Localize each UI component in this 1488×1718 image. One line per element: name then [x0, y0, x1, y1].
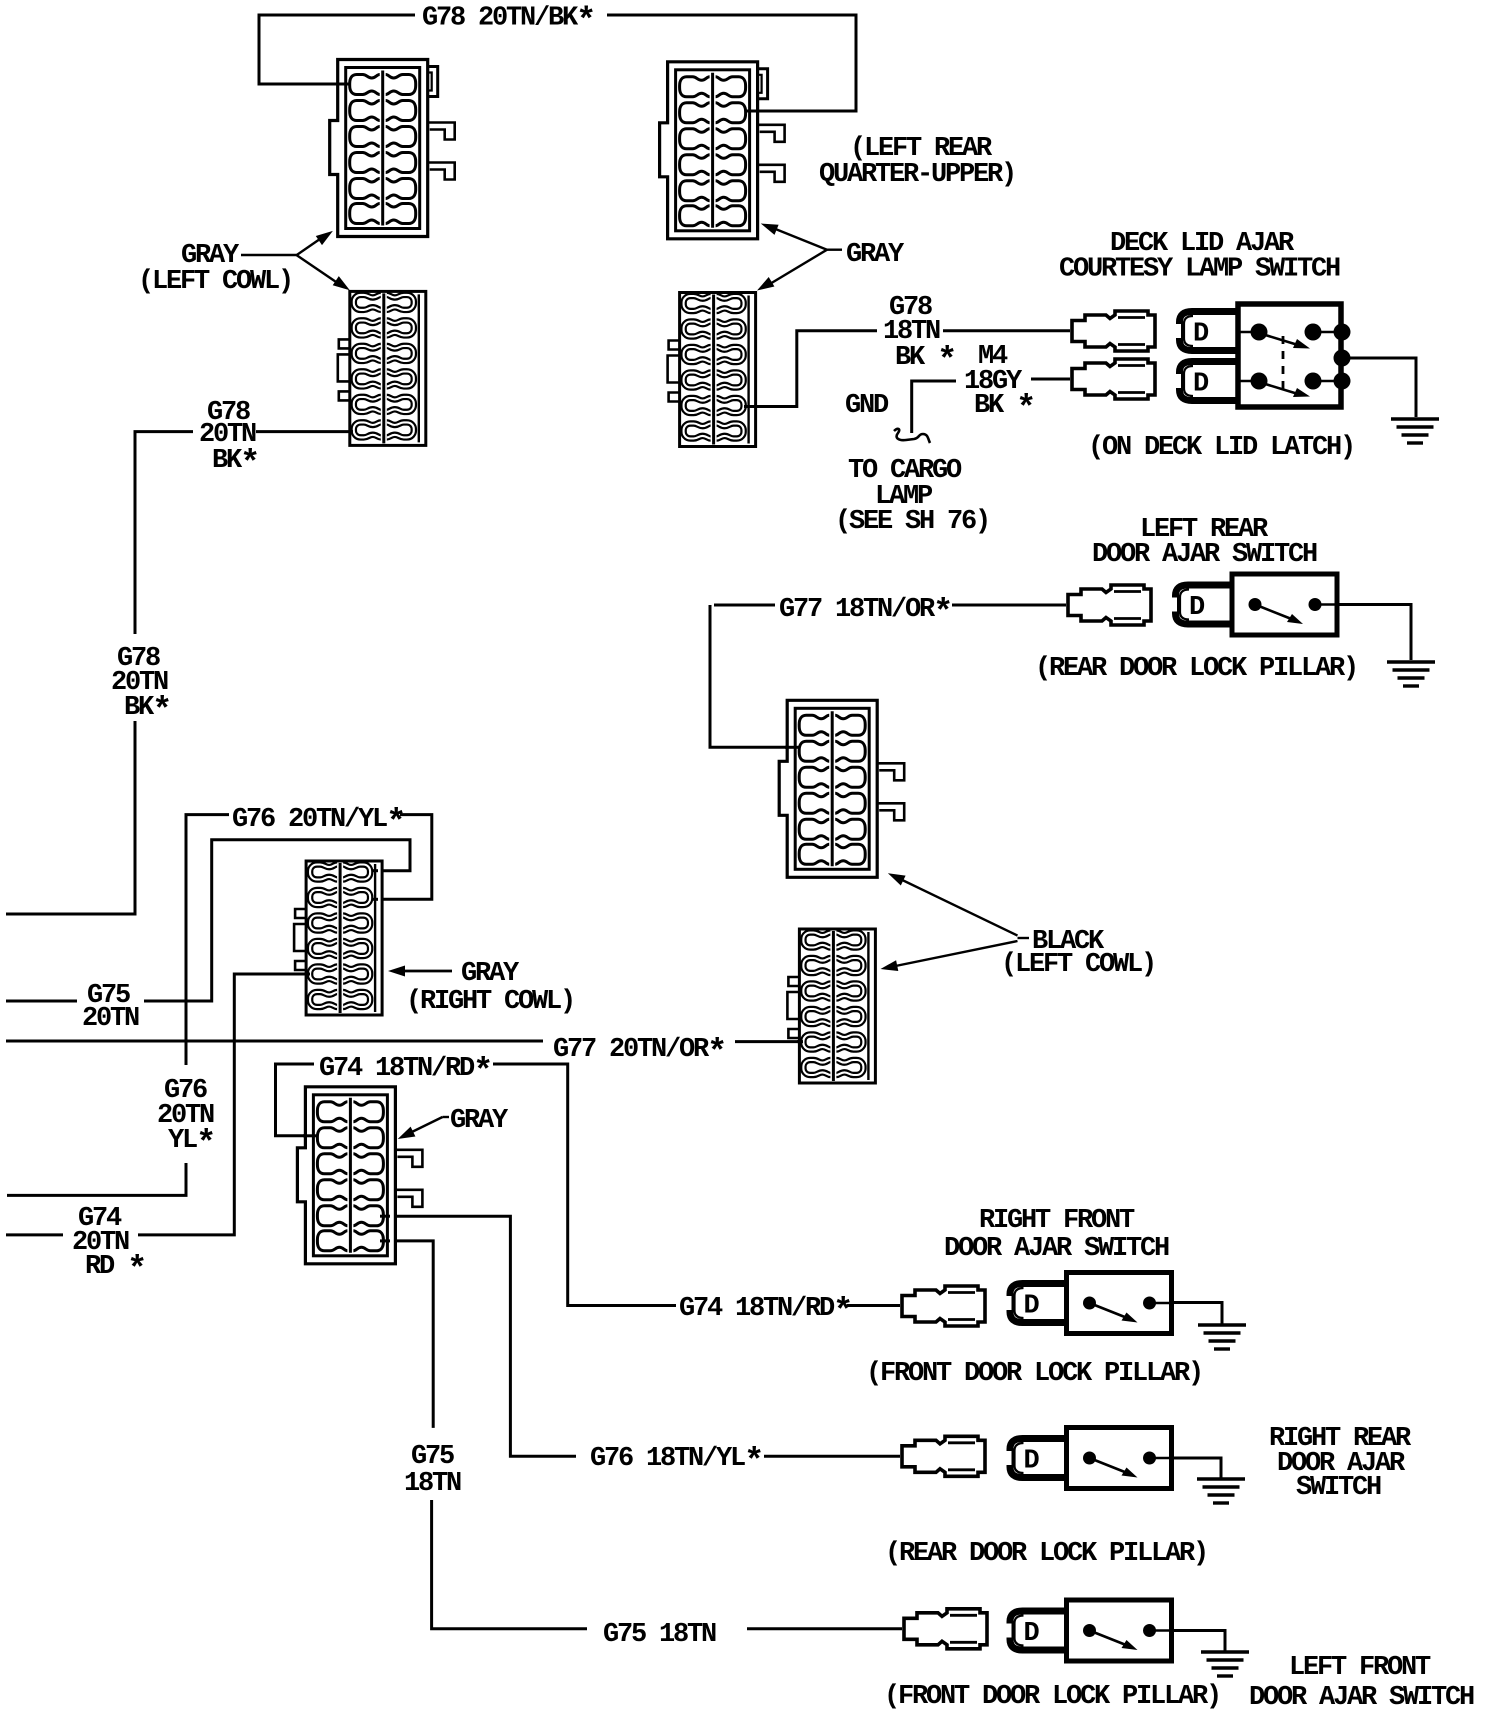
connector G gray cowl (male, G74 area): [297, 1087, 422, 1264]
terminal on wire G75 18TN: [904, 1609, 987, 1649]
connector pod D pin 1 (deck lid switch): [1176, 312, 1238, 351]
wire G77 18TN/OR* to connector E2 row 2: [710, 605, 800, 747]
svg-text:LEFT FRONT: LEFT FRONT: [1289, 1653, 1431, 1683]
wire right rear door switch to ground: [1171, 1458, 1221, 1478]
wire G74 18TN/RD* label to connector G row 2: [276, 1064, 319, 1136]
wire G77 18TN/OR* to left rear door switch terminal: [952, 604, 1066, 607]
wire G76 20TN/YL* label left drop: [186, 815, 229, 1065]
connector pod D pin 2 (deck lid switch): [1176, 362, 1238, 401]
gray (quarter) leader arrows: [827, 248, 842, 250]
wire G75 20TN to connector E row 1: [144, 840, 410, 1001]
wire G74 18TN/RD* lower label to terminal: [847, 1304, 900, 1307]
deck lid ajar courtesy lamp switch: [1072, 304, 1439, 443]
terminal on wire G76 18TN/YL*: [902, 1436, 985, 1476]
wire right front door switch to ground: [1171, 1303, 1222, 1325]
ground (deck lid switch): [1391, 419, 1439, 443]
connector A gray left cowl (male, to instrument panel): [330, 60, 455, 237]
wire tails entering connector housings: [303, 84, 803, 1241]
wire G76 18TN/YL* label to terminal: [764, 1455, 900, 1458]
connector pod D (right front door switch): [1007, 1284, 1069, 1323]
gray (left cowl) leader arrows: [241, 254, 297, 256]
svg-text:G75: G75: [411, 1442, 454, 1472]
terminal on wire G78 18TN BK*: [1072, 311, 1155, 351]
wire G78 20TN/BK* label to connector C: [607, 15, 856, 111]
deck lid switch gang (dashed link): [1282, 336, 1285, 396]
svg-text:GRAY: GRAY: [450, 1106, 509, 1136]
connector E gray right cowl (female): [294, 861, 382, 1015]
svg-text:(RIGHT COWL): (RIGHT COWL): [406, 987, 574, 1017]
svg-text:G75 18TN: G75 18TN: [603, 1620, 716, 1650]
deck lid switch body: [1238, 304, 1341, 407]
wire deck lid switch to ground: [1350, 358, 1416, 417]
svg-text:(ON DECK LID LATCH): (ON DECK LID LATCH): [1088, 433, 1354, 463]
svg-text:(FRONT DOOR LOCK PILLAR): (FRONT DOOR LOCK PILLAR): [866, 1359, 1202, 1389]
connector pod D (left front door switch): [1007, 1611, 1069, 1650]
deck lid switch throw arrow 2: [1262, 383, 1298, 394]
ground (left rear door switch): [1387, 662, 1435, 686]
svg-text:RIGHT FRONT: RIGHT FRONT: [979, 1206, 1135, 1236]
wire G78 18TN BK* connector D to label: [744, 331, 877, 407]
connector C gray left rear quarter-upper (male): [660, 62, 785, 239]
terminal on wire G74 18TN/RD*: [902, 1286, 985, 1326]
svg-text:SWITCH: SWITCH: [1296, 1473, 1381, 1503]
svg-text:(SEE SH 76): (SEE SH 76): [835, 507, 989, 537]
wire G75 18TN connector G row 6 down: [380, 1241, 433, 1428]
black (left cowl) leader arrows: [1018, 937, 1030, 939]
wire left rear door switch to ground: [1337, 605, 1411, 661]
wire M4 18GY BK* to cargo lamp branch: [912, 381, 956, 433]
deck lid switch contact links: [1238, 332, 1350, 381]
break symbol GND to cargo lamp: [894, 429, 930, 443]
wire G74 18TN/RD* down to lower label: [493, 1064, 676, 1306]
terminal on wire G77 18TN/OR*: [1068, 585, 1151, 625]
ground (right rear door switch): [1197, 1479, 1245, 1503]
wire G76 20TN/YL* label to connector E row 2: [372, 815, 432, 900]
wire G78 20TN BK* vertical upper: [135, 432, 193, 634]
connector F black left cowl (female): [787, 929, 875, 1083]
wire G77 20TN/OR* to connector F row 5: [735, 1040, 803, 1043]
svg-text:QUARTER-UPPER): QUARTER-UPPER): [819, 160, 1015, 190]
svg-text:(REAR DOOR LOCK PILLAR): (REAR DOOR LOCK PILLAR): [1035, 654, 1357, 684]
wire G76 20TN YL* lower drop to left edge: [7, 1163, 186, 1195]
connector D gray left rear quarter-upper (female): [668, 293, 756, 447]
svg-text:(LEFT COWL): (LEFT COWL): [1001, 950, 1155, 980]
wire G74 20TN/RD* to connector E row 5: [138, 974, 310, 1235]
svg-text:GRAY: GRAY: [461, 959, 520, 989]
svg-text:COURTESY LAMP SWITCH: COURTESY LAMP SWITCH: [1059, 255, 1340, 285]
svg-text:DOOR AJAR SWITCH: DOOR AJAR SWITCH: [1092, 540, 1317, 570]
gray (right cowl) arrow: [404, 970, 452, 972]
deck lid switch contacts: [1251, 324, 1351, 390]
wire G77 20TN/OR* from left edge: [6, 1040, 543, 1043]
ground (left front door switch): [1201, 1652, 1249, 1676]
wire G75 18TN label to terminal: [747, 1627, 902, 1630]
right front door ajar switch: [1067, 1273, 1174, 1334]
wire left front door switch to ground: [1171, 1631, 1225, 1652]
svg-text:DOOR AJAR SWITCH: DOOR AJAR SWITCH: [1249, 1683, 1474, 1713]
svg-text:(REAR DOOR LOCK PILLAR): (REAR DOOR LOCK PILLAR): [885, 1539, 1207, 1569]
wire G77 18TN/OR* label stub: [714, 604, 775, 607]
wire G76 18TN/YL* connector G row 5 to label: [380, 1216, 576, 1456]
svg-text:GND: GND: [845, 391, 889, 421]
wire M4 18GY BK* label to terminal: [1031, 378, 1070, 381]
svg-text:18TN: 18TN: [404, 1469, 461, 1499]
terminal on wire M4 18GY BK*: [1072, 359, 1155, 399]
wire G74 20TN/RD* from left edge: [6, 1233, 63, 1236]
connector pod D (left rear door switch): [1172, 585, 1234, 624]
svg-text:20TN: 20TN: [82, 1004, 139, 1034]
wire G78 20TN/BK* label to connector A: [259, 15, 415, 84]
left front door ajar switch: [1067, 1600, 1174, 1661]
right rear door ajar switch: [1067, 1428, 1174, 1489]
wire G78 20TN BK* vertical lower to left edge: [6, 721, 135, 914]
svg-text:GRAY: GRAY: [846, 240, 905, 270]
svg-text:(FRONT DOOR LOCK PILLAR): (FRONT DOOR LOCK PILLAR): [884, 1682, 1220, 1712]
ground (right front door switch): [1198, 1325, 1246, 1349]
svg-text:(LEFT COWL): (LEFT COWL): [138, 267, 292, 297]
wire G75 18TN below label to bottom label: [432, 1500, 587, 1629]
connector pod D (right rear door switch): [1007, 1439, 1069, 1478]
gray (G74 connector) arrow: [443, 1116, 450, 1118]
connector B gray left cowl (female, body side): [338, 291, 426, 445]
left rear door ajar switch: [1232, 574, 1339, 635]
deck lid switch throw arrow 1: [1262, 334, 1298, 345]
wire G78 20TN (label to connector B): [256, 430, 352, 433]
connector E2 black left cowl (male): [779, 700, 904, 877]
svg-text:DOOR AJAR SWITCH: DOOR AJAR SWITCH: [944, 1234, 1169, 1264]
wire G75 20TN from left edge: [6, 1000, 77, 1003]
wire G78 18TN BK* label to terminal: [943, 329, 1070, 332]
